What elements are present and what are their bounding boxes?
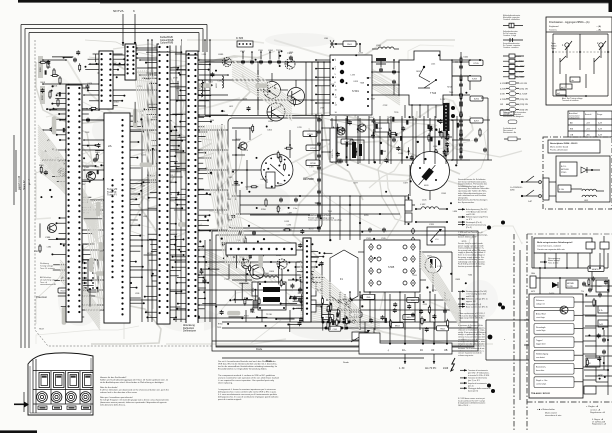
svg-text:approx. 8 V: approx. 8 V [466,300,476,303]
svg-text:trigger ident: trigger ident [536,343,546,346]
connector strip deflection top copy [303,238,311,322]
svg-text:10~: 10~ [402,349,407,352]
wire net tuner right [452,62,471,158]
wire net top center [205,61,340,63]
svg-text:4.7k: 4.7k [599,310,603,312]
component cluster (IF amplifier) [330,116,458,163]
resistor K705 [469,60,483,66]
svg-text:C723: C723 [358,53,363,55]
svg-text:C7m: C7m [293,208,298,210]
svg-text:Starting voltage (Pin 9/3): Starting voltage (Pin 9/3) [466,290,487,293]
svg-text:interruttore di rete: interruttore di rete [545,414,562,417]
svg-text:50Hz: 50Hz [510,189,515,191]
svg-text:Reference voltage (Pin 1): Reference voltage (Pin 1) [466,298,488,301]
svg-text:IC 686: IC 686 [236,37,244,40]
resistor K702 [306,145,320,151]
svg-text:nella direzione della freccia.: nella direzione della freccia. [100,404,126,407]
svg-text:2449: 2449 [443,368,449,370]
label Netzspannung [540,257,560,264]
svg-text:pezzi di ricambio originali.: pezzi di ricambio originali. [218,398,242,401]
transistor OUT (large) [288,88,305,105]
svg-text:R674: R674 [342,299,347,301]
component cluster (left upper board) [39,50,106,177]
svg-text:1. 30: 1. 30 [399,367,405,370]
svg-text:Cinescopio con rivestimento aq: Cinescopio con rivestimento aquadag [308,219,341,222]
note Bildrohr Ausgleich [308,214,341,222]
svg-text:T640: T640 [40,172,44,174]
svg-text:D135: D135 [243,98,248,100]
svg-text:control ampl.: control ampl. [536,382,547,385]
svg-text:T533: T533 [224,279,228,281]
component chain right of tuner [459,52,487,160]
svg-text:Condens. ceramico: Condens. ceramico [503,47,518,49]
transistor T617 [504,306,568,341]
svg-text:(233) 5W: (233) 5W [520,104,528,106]
svg-text:T 516: T 516 [430,92,437,95]
svg-text:Trigger/: Trigger/ [536,339,543,342]
legend: ceramic capacitor [503,42,521,49]
svg-text:Circuito non separato dalla re: Circuito non separato dalla rete [537,248,566,251]
svg-text:0.75W: 0.75W [500,99,506,101]
capacitor chain C567 [459,88,463,150]
page footer [592,418,607,426]
wire bottom long [222,358,424,364]
svg-text:Nicht netzgetrenntes Schaltung: Nicht netzgetrenntes Schaltungsteil [537,241,573,244]
scan artifact: bottom-left black streak [0,430,37,433]
wire net transistor cluster [257,70,296,110]
svg-text:Tens. di rete: Tens. di rete [548,261,558,264]
svg-text:10n 500V: 10n 500V [516,77,526,79]
svg-text:Tensione di avviamento: Tensione di avviamento [468,369,488,372]
svg-text:MKT/MB: MKT/MB [567,283,574,285]
scan artifact: top edge black band [18,0,612,3]
push-button unit drawing (front panel) [14,353,93,415]
svg-text:Regolazione +A: Regolazione +A [590,411,605,414]
table connections/range [568,111,612,137]
switch Taste 2 [594,41,606,66]
svg-text:voltage ref.: voltage ref. [536,303,545,306]
legend Regler [586,405,605,414]
svg-text:R711: R711 [267,179,269,183]
transistor C683 (large) [267,103,285,123]
svg-text:51811 71a: 51811 71a [332,150,334,158]
svg-text:D352: D352 [83,244,88,246]
svg-text:Nulldurchgang: Nulldurchgang [536,352,548,355]
svg-text:L601: L601 [584,200,588,202]
capacitor C301 [73,58,97,163]
svg-text:D549: D549 [398,153,403,155]
text Avvertenze di Servizio (Italian) [458,324,486,357]
wire module top line [205,115,330,117]
svg-text:ist die Ausklinksperre durch V: ist die Ausklinksperre durch Verschieben… [100,381,164,384]
connector strip C top copy [125,44,136,80]
svg-text:667/5GB: 667/5GB [561,169,569,171]
svg-text:Anlaufspannung (Pin 9/2): Anlaufspannung (Pin 9/2) [466,208,488,211]
svg-text:T299: T299 [394,112,398,114]
inductor L534 [372,45,399,49]
svg-text:T499: T499 [94,167,98,169]
margin tick line [14,135,16,205]
svg-text:L354: L354 [46,67,50,69]
svg-text:Anlauf Start: Anlauf Start [536,313,546,316]
svg-text:L612: L612 [229,106,233,108]
svg-text:when replacing.: when replacing. [218,382,233,385]
svg-text:T264: T264 [468,275,472,277]
svg-text:C155: C155 [149,73,154,75]
switch Taste 1 [551,41,572,66]
svg-text:C191: C191 [423,304,428,306]
resistor R111 [34,244,41,253]
svg-text:L297: L297 [351,141,355,143]
svg-text:c. Regler +A: c. Regler +A [586,405,599,408]
connector strip top copy 2 [99,51,113,109]
transistor T583 [285,53,295,69]
svg-text:Collegamenti: Collegamenti [569,117,580,120]
svg-text:T430: T430 [210,120,214,122]
svg-text:L216: L216 [433,146,437,148]
svg-text:K705: K705 [473,63,479,65]
svg-text:+0/3: +0/3 [586,122,590,124]
terminal rail box [359,333,452,354]
label Preomat [36,295,47,299]
svg-text:L709: L709 [320,107,324,109]
svg-text:R504: R504 [440,328,444,330]
svg-text:—(A): —(A) [596,25,601,28]
text IC627 note italian [458,397,485,407]
svg-text:C205: C205 [245,187,250,189]
connector Preomat [74,260,98,292]
svg-text:R708: R708 [310,163,316,165]
svg-text:R639: R639 [456,279,461,281]
pcb trace bundles extra [38,60,460,330]
wire net S505 [358,252,452,292]
svg-text:R517: R517 [39,328,44,330]
transistor T512 [358,124,366,132]
svg-text:Circuit hot mains - isolated: Circuit hot mains - isolated [537,245,561,248]
wire stubs from connector strips [51,51,324,320]
svg-text:T663: T663 [208,81,212,83]
svg-text:R608: R608 [40,82,45,84]
scan artifact: top-right corner mark [609,0,612,12]
svg-text:R692: R692 [416,71,421,73]
svg-text:TF 96: TF 96 [266,314,272,316]
legend: resistor wattage rows [500,81,528,111]
svg-text:L598: L598 [330,84,334,86]
legend: wirewound resistor [503,111,527,141]
svg-text:Condens. a fogli: Condens. a fogli [503,35,517,37]
svg-text:C403: C403 [260,179,265,181]
svg-text:T341: T341 [387,117,391,119]
svg-text:Basisstrom-: Basisstrom- [536,366,546,369]
svg-text:L697: L697 [288,213,292,215]
svg-text:commutazione AV: commutazione AV [40,283,57,286]
svg-text:C423: C423 [366,78,371,80]
svg-text:C685: C685 [218,54,224,56]
svg-text:L398: L398 [143,216,147,218]
svg-text:Tensione di riferimento: Tensione di riferimento [468,377,487,380]
svg-text:C 120: C 120 [437,266,443,268]
wire verticals upper mid [336,116,457,164]
pcb copper traces (background texture) [36,40,522,344]
transistor T301 [58,168,66,176]
svg-text:Deflessione: Deflessione [183,330,197,333]
scan shading blobs [45,33,498,340]
svg-text:4075: 4075 [531,291,535,293]
legend arrows DE (voltages) [458,208,505,230]
label Diode bus [256,348,263,351]
margin note (rotated) [18,175,31,190]
svg-text:—(A): —(A) [596,29,601,32]
svg-text:L197: L197 [303,178,307,180]
svg-text:des Spannsandes.: des Spannsandes. [458,202,475,204]
svg-text:R385: R385 [145,79,150,81]
text IC631 replacement note [458,312,486,320]
svg-text:L125: L125 [202,54,206,56]
hexagon shield (line output) [330,250,358,304]
svg-text:D253: D253 [95,152,100,154]
svg-text:Preomat: Preomat [36,295,47,299]
power supply inner box [556,156,610,202]
connector strip (deflection) [303,238,311,322]
svg-text:T591: T591 [328,211,332,213]
module box Netzteilplatte (dash-dot) [543,137,612,209]
svg-text:D464: D464 [114,102,119,104]
svg-text:L309: L309 [289,52,293,54]
capacitor C703/C704 bottom [276,198,298,211]
svg-text:Condens. elettrolitico: Condens. elettrolitico [503,18,520,21]
discriminator coil (large circle) [411,152,450,191]
svg-text:(235) 1W: (235) 1W [520,88,528,90]
svg-text:Button: Button [551,45,557,48]
svg-text:Diode: Diode [256,348,263,351]
component cluster (upper mid dense) [336,117,459,164]
connector strip (Tuner bus left) top copy [66,85,82,322]
board edge (dashed) [35,40,212,346]
svg-text:Regulateurs +A: Regulateurs +A [592,423,607,426]
transformer TF96 (black bars) [258,282,286,316]
connector strip 2A (large edge connector) [104,113,130,323]
trafo block (black bars) [350,140,364,160]
scattered small components [208,56,309,323]
svg-text:S 501: S 501 [352,89,359,93]
svg-text:L370: L370 [244,150,248,152]
svg-text:D402: D402 [464,56,469,58]
svg-text:Tensione di sintonia: Tensione di sintonia [562,99,580,102]
wire net mains region [532,236,608,300]
svg-text:2A: 2A [108,144,112,148]
svg-text:180k: 180k [531,273,535,275]
transistor C386 [45,224,57,240]
svg-text:C620: C620 [427,255,432,257]
svg-text:(Pin 3): (Pin 3) [466,227,472,229]
svg-text:C717: C717 [199,248,204,250]
svg-text:0.33 1W: 0.33 1W [520,83,528,85]
svg-text:T1k: T1k [581,291,584,293]
inductor L500 [262,273,278,278]
wire net main board grid [81,39,471,322]
block C333 with arrow [427,224,445,245]
legend: foil capacitor [503,30,523,42]
component fill power region [585,277,608,380]
svg-text:UB: UB [444,349,448,352]
resistor group left edge [38,56,61,107]
svg-text:5.1 A: 5.1 A [559,188,564,191]
svg-text:1 C E: 1 C E [440,99,446,101]
connector (black pin strip) near text column [440,99,455,131]
svg-text:Tastiera: Tastiera [549,29,557,32]
capacitor C504 [250,300,260,314]
svg-text:NF/TV/L: NF/TV/L [113,9,124,13]
resistor K706 [500,110,514,116]
svg-text:L 532: L 532 [420,204,426,206]
svg-text:Drucktasten - Aggregat 29504—: Drucktasten - Aggregat 29504—(A) [549,20,590,24]
svg-text:L145: L145 [431,63,435,65]
svg-text:Piastra alimentatore: Piastra alimentatore [550,149,569,152]
svg-text:K: K [133,9,135,13]
svg-text:base (pin 3): base (pin 3) [468,390,478,392]
svg-text:850k: 850k [367,297,371,299]
svg-text:L561: L561 [413,275,417,277]
svg-text:T667: T667 [371,98,375,100]
inductor L532 [415,204,448,210]
svg-text:T152: T152 [227,199,231,201]
svg-text:C683: C683 [268,121,274,123]
component cluster (sound IF band) [322,294,450,332]
svg-text:T566: T566 [449,92,453,94]
diode D616 [549,282,558,295]
svg-text:T648: T648 [360,82,364,84]
svg-text:L685: L685 [278,183,282,185]
wire net right of tuner 2 [452,62,492,160]
svg-text:Tens. B. sintonia: Tens. B. sintonia [40,267,56,270]
svg-text:(4.7) 3W: (4.7) 3W [520,94,528,96]
svg-text:schema seguente:: schema seguente: [458,354,474,357]
svg-text:Ersatzfall dürfen nur Original: Ersatzfall dürfen nur Originalteile Verw… [218,368,268,371]
wire net lower center [232,262,322,322]
wire net fill left board [40,54,219,318]
connector strip Farbe/RGB header [186,51,198,327]
svg-text:C249: C249 [382,151,387,153]
connector strip 2A top copy [104,113,130,323]
svg-text:27545: 27545 [561,172,566,174]
svg-text:R105: R105 [442,193,447,195]
wire: top feed lines NF/TV [113,9,136,46]
svg-text:C143: C143 [149,130,154,132]
svg-text:L534: L534 [376,45,382,47]
svg-text:Mains rectifier board: Mains rectifier board [550,145,568,148]
wire risers TDA left [519,250,521,400]
diode D533 (diamond pair) [411,228,415,243]
label Farbe/RGB [161,35,175,45]
resistor K703 [303,131,317,137]
svg-text:D153: D153 [285,221,290,223]
legend arrows EN [458,290,505,310]
svg-text:Resistenza non disegnata: Resistenza non disegnata [503,115,524,118]
svg-text:D748: D748 [173,77,178,79]
legend arrows IT [460,369,495,393]
svg-text:C364: C364 [149,239,154,241]
capacitor C702 legend [236,231,256,243]
svg-text:C782: C782 [383,105,388,107]
wire grid power region [534,253,612,386]
IC TDA4600 block diagram [524,294,583,398]
flash symbol 2449 [443,358,455,371]
mains switch + plug [510,176,549,203]
transistor T619 right [596,280,609,292]
wire net fill center lower [229,252,333,332]
svg-text:UF: UF [431,349,435,352]
label Farbe/RGB top copy [159,35,181,46]
IC U686 [236,37,253,47]
svg-text:D421: D421 [141,155,146,157]
wire risers to rail [365,322,447,343]
legend: electrolytic capacitor [503,14,523,28]
svg-text:L191: L191 [309,166,313,168]
label Abst.Sp. tuning voltage [562,97,583,102]
svg-text:0-28: 0-28 [598,122,602,124]
svg-text:Referenz-: Referenz- [536,299,545,302]
wire net TDA outputs [486,300,608,382]
svg-text:L 10: L 10 [435,239,438,241]
svg-text:R760: R760 [218,324,223,326]
connector strip F top copy [186,55,198,325]
svg-text:S 505: S 505 [388,266,395,269]
transistor T708 [236,139,247,150]
module frame lower right nested [212,231,478,351]
caps column mid [317,115,321,232]
svg-text:C105: C105 [422,199,427,201]
svg-text:C186: C186 [467,327,472,329]
junction dot rows [322,321,351,330]
components right of TDA [586,306,608,377]
resistor block 51811 [330,128,337,162]
capacitor C331 [296,288,302,311]
svg-text:2.2-250: 2.2-250 [567,286,573,288]
svg-text:L193: L193 [351,75,355,77]
svg-text:0-28: 0-28 [598,134,602,136]
svg-text:Diode: Diode [343,362,349,364]
resistor R512 boxes [309,282,316,312]
label Ablenkung top copy [182,323,204,334]
connector strip (Tuner bus left) [66,85,82,322]
svg-text:L582: L582 [47,246,51,248]
svg-text:R796: R796 [432,290,437,292]
rectifier block S505 (diode array) [364,240,420,292]
wire L532 row2 [415,221,448,223]
extra junction dots 2 [49,55,457,320]
svg-text:AG 70 PC: AG 70 PC [425,367,436,370]
capacitor C541 stack [392,59,396,95]
svg-text:+5/1: +5/1 [586,128,590,130]
svg-text:C192: C192 [217,81,222,83]
svg-text:R353: R353 [244,315,249,317]
svg-text:R774: R774 [152,117,157,119]
resistor chain R531 [405,194,412,225]
svg-text:B.C.U.: B.C.U. [561,166,567,168]
svg-text:0.125W: 0.125W [500,83,507,85]
module frame (IF unit) [218,118,322,230]
svg-text:L634: L634 [453,211,457,213]
svg-text:1W: 1W [500,104,503,106]
svg-text:Range: Range [597,114,602,116]
component cluster (mid board) [200,241,324,326]
label AG70 [303,178,314,181]
text block VDE (German/English/Italian) [218,360,280,401]
transistor C382 [84,167,96,181]
large tuning circle [261,154,293,186]
svg-text:C382: C382 [84,167,90,169]
dash-dot boundary (mains isolation) [514,234,612,430]
